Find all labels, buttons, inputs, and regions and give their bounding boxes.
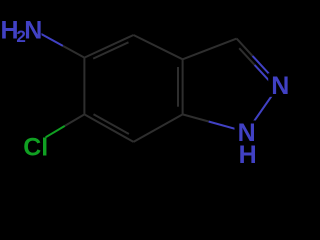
molecule: 6-chloro-1H-indazol-5-amine skeletal structure [0, 0, 300, 176]
bond C3=N2 inner (half near C3) [239, 48, 254, 65]
bond N1-C7a (half near C7a) [183, 114, 209, 121]
bond C6=C7 main [84, 114, 133, 141]
bond C3a=C7a inner [177, 67, 179, 107]
svg-text:N: N [24, 17, 42, 45]
bond Cl-C6 (half near C6) [65, 114, 85, 126]
svg-text:Cl: Cl [23, 133, 48, 161]
bond C5=C4 main [84, 35, 133, 58]
bond C3=N2 main (half near N2) [253, 56, 280, 85]
bond C3=N2 inner (half near N2) [255, 65, 270, 82]
bond C3a=C7a main (fused edge) [182, 59, 184, 114]
bond C6=C7 inner [94, 114, 129, 134]
svg-text:H: H [239, 141, 257, 169]
bond N2-N1 [247, 85, 280, 132]
bond C5-C6 [83, 58, 85, 115]
bond N(amine)-C5 (half near Nam) [33, 29, 63, 46]
svg-text:N: N [271, 72, 289, 100]
bond C3=N2 main (half near C3) [237, 39, 253, 56]
bond C3a-C3 [183, 39, 237, 60]
bond C4-C3a [134, 35, 183, 59]
bond Cl-C6 (half near Cl) [30, 126, 64, 146]
bond C5=C4 inner [93, 42, 128, 58]
bond C7-C7a [134, 114, 183, 141]
bond N(amine)-C5 (half near C5) [63, 46, 85, 58]
bond N1-C7a (half near N1) [209, 122, 247, 133]
